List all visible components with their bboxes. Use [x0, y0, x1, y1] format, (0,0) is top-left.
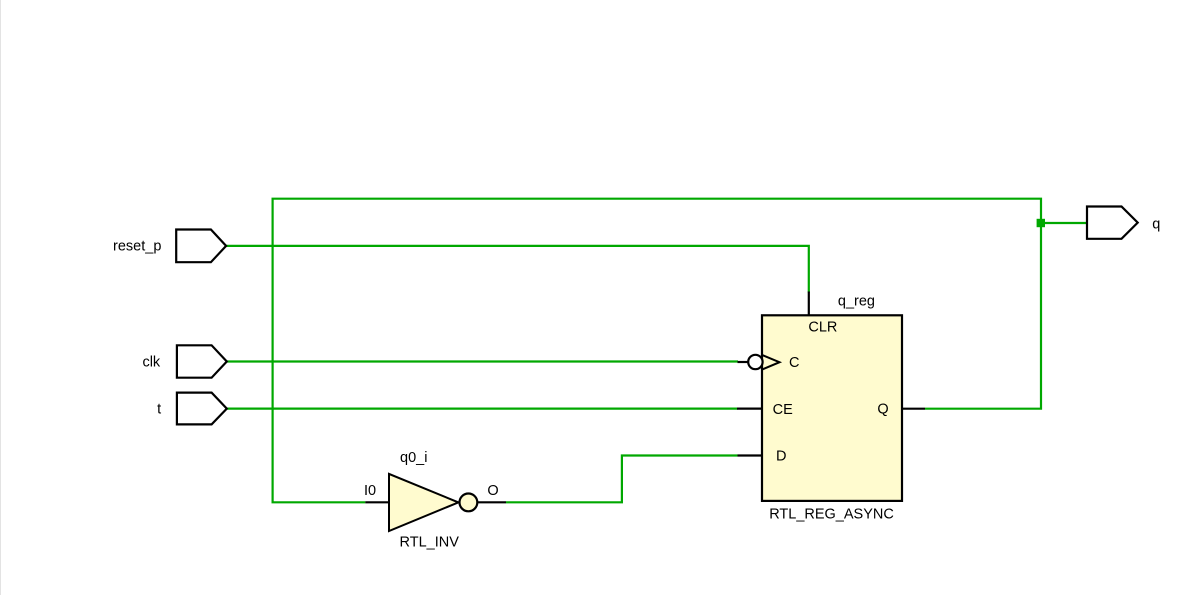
pin C of q_reg (clock, inverted) — [738, 355, 800, 371]
type label RTL_REG_ASYNC — [769, 507, 894, 523]
wire q feedback net — [273, 199, 1041, 503]
svg-text:C: C — [789, 355, 799, 371]
wire t net — [226, 408, 738, 410]
svg-text:clk: clk — [142, 354, 160, 370]
svg-text:Q: Q — [877, 401, 888, 417]
svg-text:q: q — [1152, 217, 1160, 233]
instance label q0_i — [400, 450, 427, 466]
wire clk net — [226, 360, 738, 362]
pin CE of q_reg — [737, 402, 793, 418]
inverter U q0_i body (RTL_INV) — [389, 474, 477, 531]
svg-text:RTL_REG_ASYNC: RTL_REG_ASYNC — [769, 507, 894, 523]
svg-text:reset_p: reset_p — [113, 239, 161, 255]
input port t — [157, 393, 227, 425]
pin O of q0_i — [478, 483, 507, 502]
wire q port branch — [1041, 222, 1087, 224]
svg-text:q0_i: q0_i — [400, 450, 427, 466]
svg-text:CLR: CLR — [808, 320, 837, 336]
wire q0_i output net — [506, 456, 738, 503]
pin CLR of q_reg — [808, 292, 837, 336]
svg-text:D: D — [776, 449, 786, 465]
input port reset_p — [113, 230, 226, 263]
pin D of q_reg — [738, 449, 787, 465]
svg-text:I0: I0 — [364, 483, 376, 499]
pin I0 of q0_i — [364, 483, 389, 502]
pin Q of q_reg — [877, 401, 925, 417]
svg-text:t: t — [157, 401, 161, 417]
svg-text:O: O — [487, 483, 498, 499]
instance label q_reg — [838, 294, 875, 310]
wire reset_p net — [226, 246, 809, 293]
type label RTL_INV — [400, 535, 460, 551]
svg-text:RTL_INV: RTL_INV — [400, 535, 460, 551]
svg-text:q_reg: q_reg — [838, 294, 875, 310]
input port clk — [142, 345, 226, 377]
svg-text:CE: CE — [773, 402, 793, 418]
junction on q net — [1037, 219, 1045, 227]
register U q_reg body (RTL_REG_ASYNC) — [762, 315, 902, 501]
output port q — [1087, 207, 1160, 239]
